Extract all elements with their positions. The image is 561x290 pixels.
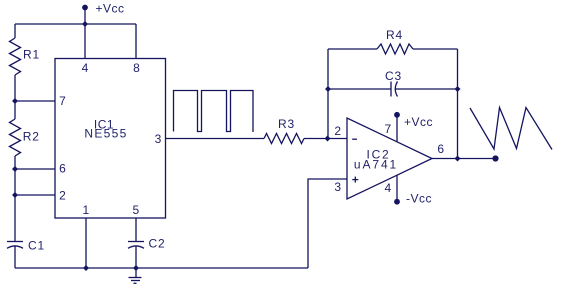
wire to pin 2 — [15, 194, 55, 196]
junction node pin7 — [12, 98, 18, 104]
power +Vcc terminal (top) — [82, 5, 88, 24]
svg-text:6: 6 — [59, 162, 66, 176]
capacitor C1 — [7, 242, 23, 269]
junction pin1 bottom — [83, 265, 89, 271]
wire R4 branch right — [413, 48, 458, 50]
svg-text:3: 3 — [155, 132, 162, 146]
svg-text:6: 6 — [437, 142, 444, 156]
wire bottom rail — [15, 267, 308, 269]
square wave symbol — [174, 91, 254, 133]
wire R2 to node — [14, 156, 16, 195]
opamp pin 4 supply wire — [396, 175, 398, 199]
svg-text:R1: R1 — [23, 48, 40, 62]
op-amp U2 (IC2 uA741) — [347, 118, 432, 199]
wire pin4 drop — [84, 24, 86, 59]
resistor R4 — [377, 44, 413, 54]
capacitor C2 — [128, 242, 144, 269]
wire Vcc rail — [15, 23, 136, 25]
svg-text:C1: C1 — [28, 239, 45, 253]
svg-text:uA741: uA741 — [354, 158, 398, 172]
svg-text:3: 3 — [334, 180, 341, 194]
junction C3 left — [325, 86, 331, 92]
power +Vcc terminal (opamp) — [394, 112, 400, 118]
wire C3 branch right — [396, 88, 458, 90]
svg-text:2: 2 — [334, 124, 341, 138]
svg-text:C3: C3 — [385, 69, 402, 83]
svg-text:+Vcc: +Vcc — [96, 2, 125, 16]
svg-text:-Vcc: -Vcc — [406, 192, 432, 206]
wire left rail top — [14, 24, 16, 38]
junction ground node — [133, 265, 139, 271]
triangle wave symbol — [470, 108, 552, 150]
junction node pin2 — [12, 192, 18, 198]
wire C3 branch left — [328, 88, 391, 90]
svg-text:2: 2 — [59, 189, 66, 203]
svg-text:7: 7 — [59, 94, 66, 108]
wire R3 to inverting input — [304, 138, 347, 140]
svg-text:7: 7 — [384, 122, 391, 136]
resistor R1 — [10, 38, 21, 75]
wire noninverting input — [308, 179, 347, 268]
plus input sign — [352, 177, 358, 183]
opamp pin 7 supply wire — [396, 117, 398, 142]
junction output feedback — [455, 156, 461, 162]
svg-text:NE555: NE555 — [84, 127, 127, 141]
svg-text:C2: C2 — [149, 237, 166, 251]
wire to pin 7 — [15, 100, 55, 102]
svg-text:R4: R4 — [386, 28, 403, 42]
wire pin5 drop — [135, 218, 137, 242]
junction node pin6 — [12, 166, 18, 172]
resistor R2 — [10, 119, 21, 156]
junction (Vcc rail) — [82, 21, 88, 27]
wire feedback left vertical — [327, 49, 329, 139]
junction node inverting input — [325, 136, 331, 142]
IC U1 (IC1 NE555) box — [55, 59, 166, 219]
svg-text:1: 1 — [82, 203, 89, 217]
wire to pin 6 — [15, 168, 55, 170]
power -Vcc terminal (opamp) — [394, 199, 400, 205]
wire pin3 to opamp — [166, 138, 265, 140]
output terminal dot — [492, 155, 498, 161]
capacitor C3 — [391, 82, 398, 97]
wire output — [432, 158, 496, 160]
svg-text:4: 4 — [384, 181, 391, 195]
wire pin8 drop — [135, 24, 137, 59]
svg-text:4: 4 — [82, 61, 89, 75]
wire R1 to node — [14, 75, 16, 119]
junction C3 right — [455, 86, 461, 92]
minus input sign — [352, 138, 357, 140]
svg-text:R2: R2 — [23, 130, 40, 144]
wire pin1 drop — [85, 218, 87, 268]
svg-text:5: 5 — [132, 203, 139, 217]
svg-text:R3: R3 — [278, 117, 295, 131]
ground — [129, 268, 142, 283]
wire node to C1 — [14, 195, 16, 242]
resistor R3 — [264, 134, 304, 144]
wire R4 branch left — [328, 48, 377, 50]
wire feedback right vertical — [457, 49, 459, 159]
svg-text:+Vcc: +Vcc — [404, 115, 433, 129]
svg-text:8: 8 — [133, 61, 140, 75]
